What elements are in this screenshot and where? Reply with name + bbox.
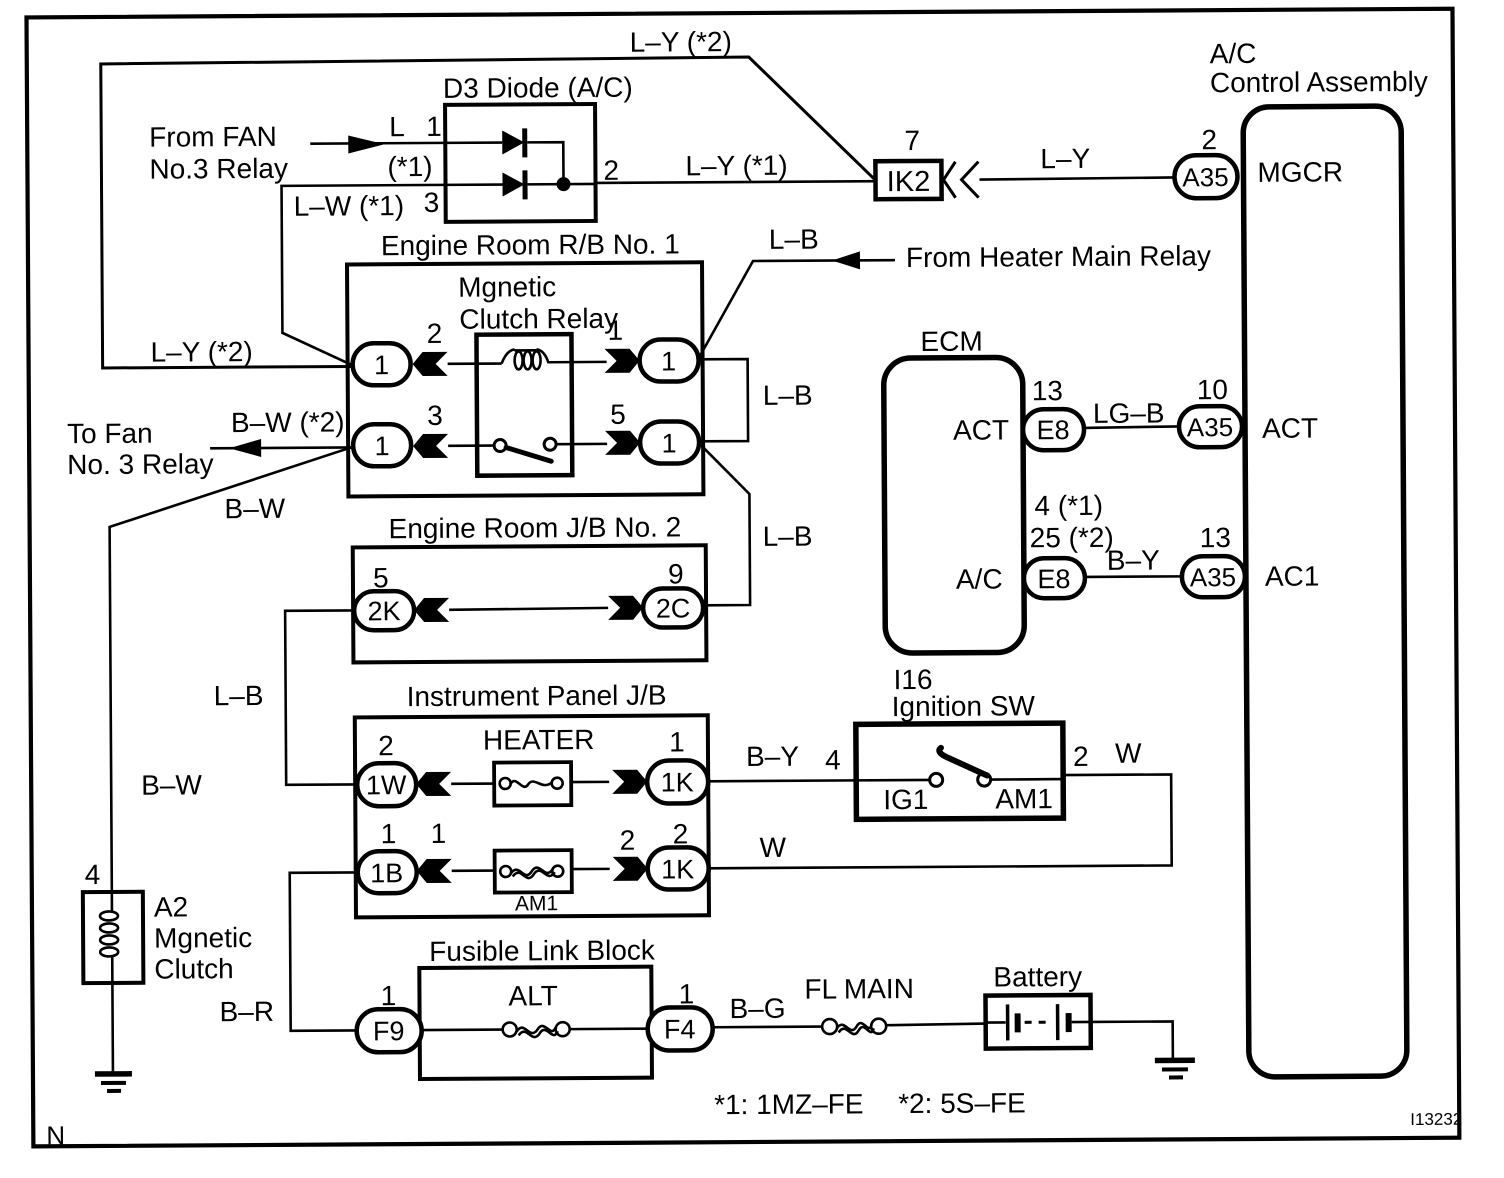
svg-text:4 (*1): 4 (*1) xyxy=(1034,490,1103,521)
wire relay coil left xyxy=(448,362,502,365)
wire L from FAN No.3 relay to diode D3 pin 1 xyxy=(310,142,445,145)
junction node diode output xyxy=(556,177,570,191)
label contact IG1 xyxy=(883,784,928,815)
wire relay switch right xyxy=(556,443,607,446)
wire to Fan No.3 relay xyxy=(210,446,353,449)
svg-text:B–Y: B–Y xyxy=(1107,545,1160,576)
svg-text:L–B: L–B xyxy=(214,680,264,711)
svg-text:13: 13 xyxy=(1032,375,1063,406)
pin 5 label (2K) xyxy=(373,562,389,593)
label I16 Ignition SW xyxy=(891,663,1035,722)
pin 2 label (arrow row2) xyxy=(620,825,636,856)
connector A35 pin 10 xyxy=(1179,406,1242,447)
label wire color B-W (*2) xyxy=(231,406,345,438)
svg-text:D3 Diode (A/C): D3 Diode (A/C) xyxy=(443,72,633,104)
svg-text:Mgnetic: Mgnetic xyxy=(154,922,252,954)
label Mgnetic Clutch Relay xyxy=(458,271,618,335)
wire L-B from 2K to instrument panel 1W xyxy=(285,610,357,784)
svg-text:4: 4 xyxy=(85,859,101,890)
arrow into 1K row1 xyxy=(612,770,647,794)
svg-text:N: N xyxy=(46,1120,65,1150)
ECM box xyxy=(884,357,1025,653)
wire B-G from F4 to FL MAIN xyxy=(713,1025,823,1028)
diode D3 lower xyxy=(445,170,595,200)
svg-text:I13232: I13232 xyxy=(1410,1110,1462,1129)
label I13232 xyxy=(1410,1110,1462,1129)
svg-text:E8: E8 xyxy=(1037,564,1070,594)
svg-text:3: 3 xyxy=(427,400,443,431)
label wire color L-Y (*2) top xyxy=(630,26,732,58)
junction box Engine Room R/B No.1 xyxy=(347,262,703,496)
svg-text:13: 13 xyxy=(1200,522,1231,553)
label net ACT (ECM) xyxy=(953,414,1009,445)
pin 4 label (ignition) xyxy=(825,744,841,775)
svg-text:1: 1 xyxy=(662,428,677,458)
svg-text:ECM: ECM xyxy=(920,326,982,357)
battery box xyxy=(985,995,1090,1049)
svg-text:9: 9 xyxy=(668,558,684,589)
svg-text:Instrument Panel J/B: Instrument Panel J/B xyxy=(407,680,667,713)
fusible link ALT xyxy=(422,1022,648,1038)
relay terminal 3 oval xyxy=(353,424,411,466)
label net A/C (ECM) xyxy=(956,563,1003,594)
svg-text:2: 2 xyxy=(673,818,689,849)
label wire color W (top) xyxy=(1115,738,1142,769)
svg-text:2: 2 xyxy=(378,730,394,761)
svg-text:HEATER: HEATER xyxy=(483,724,595,756)
label wire color L-W (*1) xyxy=(294,190,405,222)
svg-text:L–Y: L–Y xyxy=(1040,143,1090,174)
svg-text:F4: F4 xyxy=(664,1014,696,1044)
wire L-B from relay terminal 5 to J/B No.2 terminal 9 xyxy=(701,445,750,605)
wire B-Y from E8 to A35 pin 13 xyxy=(1085,575,1182,578)
wire relay switch left xyxy=(448,444,494,447)
connector chevrons IK2 xyxy=(943,162,978,198)
svg-text:4: 4 xyxy=(825,744,841,775)
svg-text:1W: 1W xyxy=(366,770,407,800)
pin 3 label xyxy=(427,400,443,431)
svg-text:2: 2 xyxy=(1201,124,1217,155)
wire L-Y (*2) from relay terminal 2 loop to connector IK2 xyxy=(101,56,878,368)
svg-text:E8: E8 xyxy=(1036,415,1069,445)
terminal 1K oval row2 xyxy=(648,847,709,889)
arrow into 2C xyxy=(608,596,643,620)
label wire color B-Y (to switch) xyxy=(746,741,799,772)
wire W from ignition switch AM1 to 1K row2 xyxy=(708,774,1172,868)
wire A2 to ground xyxy=(111,983,114,1072)
relay terminal 5 oval xyxy=(640,421,699,463)
label Instrument Panel J/B xyxy=(407,680,667,713)
label net AC1 (assembly) xyxy=(1265,561,1320,592)
label To Fan No. 3 Relay xyxy=(67,417,214,480)
label FL MAIN xyxy=(804,973,914,1005)
svg-text:B–W: B–W xyxy=(224,493,285,524)
note engine codes xyxy=(714,1087,1026,1120)
svg-text:L–B: L–B xyxy=(763,521,813,552)
svg-text:FL MAIN: FL MAIN xyxy=(804,973,914,1005)
svg-text:Ignition SW: Ignition SW xyxy=(892,690,1036,722)
svg-text:B–W (*2): B–W (*2) xyxy=(231,406,345,438)
wire AM1 fuse to 1K row2 xyxy=(572,868,610,871)
svg-text:No.3 Relay: No.3 Relay xyxy=(149,153,288,185)
svg-text:IG1: IG1 xyxy=(883,784,928,815)
terminal 2K oval xyxy=(354,591,414,630)
svg-text:2: 2 xyxy=(620,825,636,856)
svg-text:A/C: A/C xyxy=(956,563,1003,594)
magnetic clutch A2 box xyxy=(83,892,144,983)
pin 5 label xyxy=(610,399,626,430)
ignition switch contacts xyxy=(856,747,1063,787)
pin 1 label xyxy=(608,315,624,346)
label AM1 (fuse) xyxy=(515,892,558,915)
svg-text:1K: 1K xyxy=(661,767,694,797)
label wire color B-W (vertical) xyxy=(141,769,202,800)
fusible link block box xyxy=(419,967,652,1079)
svg-text:*2: 5S–FE: *2: 5S–FE xyxy=(898,1087,1026,1119)
svg-text:F9: F9 xyxy=(373,1016,405,1046)
pin 10 label (A35) xyxy=(1197,374,1228,405)
label From FAN No.3 Relay xyxy=(149,121,288,185)
pin 13 label (A35) xyxy=(1200,522,1231,553)
fuse HEATER xyxy=(494,762,571,805)
svg-text:A35: A35 xyxy=(1190,562,1236,592)
label wire color L-B (loop) xyxy=(763,380,813,411)
label wire color L-B (left) xyxy=(214,680,264,711)
label From Heater Main Relay xyxy=(906,240,1211,273)
label A2 Mgnetic Clutch xyxy=(154,891,253,985)
arrow to Fan No.3 relay xyxy=(229,439,261,457)
wire 2K to 2C xyxy=(449,608,608,610)
wire B-Y from 1K to ignition switch IG1 xyxy=(708,779,856,783)
terminal F9 oval xyxy=(357,1009,422,1052)
wire L-Y (*1) from diode pin 2 to connector IK2 xyxy=(596,181,877,183)
svg-text:B–R: B–R xyxy=(219,996,274,1027)
arrow into terminal 1 xyxy=(605,349,640,373)
svg-text:1B: 1B xyxy=(370,858,403,888)
pin 2 label (1W) xyxy=(378,730,394,761)
svg-text:From Heater Main Relay: From Heater Main Relay xyxy=(906,240,1211,273)
svg-text:1: 1 xyxy=(381,980,397,1011)
svg-text:ALT: ALT xyxy=(508,980,557,1011)
svg-text:Control Assembly: Control Assembly xyxy=(1210,66,1428,98)
svg-text:1: 1 xyxy=(374,350,389,380)
svg-text:2: 2 xyxy=(603,155,619,186)
wire 1W to HEATER fuse xyxy=(451,782,498,785)
terminal 1W oval xyxy=(357,763,416,806)
label net ACT (assembly) xyxy=(1262,413,1318,444)
label wire color L-B (to J/B) xyxy=(763,521,813,552)
pin 1 label (arrow row2) xyxy=(431,818,447,849)
pin 1 label (1B) xyxy=(381,818,397,849)
wire L-W (*1) from diode pin 3 to relay terminal 2 xyxy=(282,185,447,365)
svg-text:No. 3 Relay: No. 3 Relay xyxy=(67,448,213,480)
label HEATER xyxy=(483,724,595,756)
terminal F4 oval xyxy=(648,1007,713,1050)
wire relay coil right xyxy=(549,361,607,364)
svg-text:A35: A35 xyxy=(1182,162,1228,192)
svg-text:*1: 1MZ–FE: *1: 1MZ–FE xyxy=(714,1088,864,1120)
wire LG-B from E8 to A35 pin 10 xyxy=(1084,426,1179,428)
svg-text:ACT: ACT xyxy=(1262,413,1318,444)
label ECM xyxy=(920,326,982,357)
relay terminal 1 oval xyxy=(639,339,698,381)
terminal 1K oval row1 xyxy=(647,760,708,803)
relay coil xyxy=(502,349,549,369)
svg-text:L–W (*1): L–W (*1) xyxy=(294,190,405,222)
pin 7 label xyxy=(904,125,920,156)
svg-text:1: 1 xyxy=(431,818,447,849)
relay contact switch xyxy=(494,438,556,461)
svg-text:B–Y: B–Y xyxy=(746,741,799,772)
svg-text:A/C: A/C xyxy=(1210,38,1257,69)
svg-text:5: 5 xyxy=(610,399,626,430)
svg-text:1: 1 xyxy=(375,431,390,461)
svg-text:Clutch Relay: Clutch Relay xyxy=(459,303,618,335)
connector E8 (ACT) xyxy=(1023,409,1084,450)
svg-text:W: W xyxy=(1115,738,1142,769)
arrow into terminal 3 xyxy=(413,434,448,458)
diode D3 upper xyxy=(445,128,563,183)
terminal 1B oval xyxy=(358,851,417,893)
wire 1B to AM1 fuse xyxy=(452,869,499,872)
pin 1 label (F4) xyxy=(679,978,695,1009)
label wire color B-R xyxy=(219,996,274,1027)
pin 1 label (F9) xyxy=(381,980,397,1011)
label wire color B-Y (ECM) xyxy=(1107,545,1160,576)
pin 3 label xyxy=(424,187,440,218)
label contact AM1 xyxy=(995,783,1053,814)
svg-text:W: W xyxy=(759,832,786,863)
svg-text:L–Y (*2): L–Y (*2) xyxy=(630,26,732,58)
arrow into terminal 2 xyxy=(413,352,448,376)
svg-text:25 (*2): 25 (*2) xyxy=(1030,522,1114,554)
pin 1 label (1K row1) xyxy=(669,726,685,757)
svg-text:Fusible Link Block: Fusible Link Block xyxy=(429,935,656,967)
label Battery xyxy=(993,961,1082,993)
wire L-Y from IK2 to A/C control assembly pin 2 xyxy=(979,177,1174,179)
wire B-R from 1B to fusible link F9 xyxy=(290,872,359,1030)
svg-text:AC1: AC1 xyxy=(1265,561,1320,592)
terminal 2C oval xyxy=(643,588,703,627)
connector A35 pin 2 xyxy=(1174,155,1237,198)
label wire color L-Y (*2) left xyxy=(150,336,252,368)
svg-text:From FAN: From FAN xyxy=(149,121,277,153)
wire FL MAIN to battery xyxy=(887,1024,986,1026)
svg-text:1: 1 xyxy=(426,111,442,142)
svg-text:Engine Room J/B No. 2: Engine Room J/B No. 2 xyxy=(389,511,682,544)
svg-text:L–B: L–B xyxy=(769,224,819,255)
pin 2 label (A35) xyxy=(1201,124,1217,155)
svg-text:Mgnetic: Mgnetic xyxy=(458,271,556,303)
wire L-B from heater main relay to relay terminal 1 xyxy=(698,260,896,358)
fusible link FL MAIN xyxy=(822,1019,886,1035)
svg-text:IK2: IK2 xyxy=(887,166,931,198)
junction box Engine Room J/B No.2 xyxy=(353,545,707,662)
arrow into 1W xyxy=(416,772,451,796)
svg-text:1: 1 xyxy=(669,726,685,757)
svg-text:L–B: L–B xyxy=(763,380,813,411)
arrow into terminal 5 xyxy=(605,431,640,455)
label A/C Control Assembly xyxy=(1210,37,1428,98)
svg-text:B–G: B–G xyxy=(729,993,785,1024)
ground (battery) xyxy=(1155,1060,1195,1077)
connector IK2 xyxy=(875,161,941,199)
svg-text:AM1: AM1 xyxy=(515,892,558,915)
svg-text:2K: 2K xyxy=(368,596,401,626)
label wire color LG-B xyxy=(1093,397,1165,428)
wire B-W from relay terminal 3 to magnetic clutch xyxy=(109,447,354,891)
arrow on FAN relay wire xyxy=(348,135,384,153)
svg-text:L–Y (*2): L–Y (*2) xyxy=(150,336,252,368)
arrow on heater relay wire xyxy=(832,251,860,269)
svg-text:A35: A35 xyxy=(1187,412,1233,442)
A/C control assembly box xyxy=(1243,106,1407,1077)
svg-text:ACT: ACT xyxy=(953,414,1009,445)
fuse AM1 xyxy=(495,850,572,892)
pin 9 label (2C) xyxy=(668,558,684,589)
connector A35 pin 13 xyxy=(1182,556,1245,597)
connector E8 (A/C) xyxy=(1024,558,1085,598)
arrow into 2K xyxy=(414,598,449,622)
svg-text:L–Y (*1): L–Y (*1) xyxy=(685,150,787,182)
junction box Instrument Panel J/B xyxy=(355,715,709,917)
pin 1 label xyxy=(426,111,442,142)
relay terminal 2 oval xyxy=(352,343,410,385)
label wire color W (row2) xyxy=(759,832,786,863)
label wire color L (*1) xyxy=(387,111,433,182)
svg-text:1: 1 xyxy=(661,346,676,376)
pin 4 label (A2) xyxy=(85,859,101,890)
pin 2 label xyxy=(427,318,443,349)
battery cells xyxy=(986,1004,1091,1041)
pin 13 label (E8 ACT) xyxy=(1032,375,1063,406)
svg-text:LG–B: LG–B xyxy=(1093,397,1165,428)
svg-text:2: 2 xyxy=(1073,741,1089,772)
svg-text:(*1): (*1) xyxy=(387,151,432,182)
svg-text:5: 5 xyxy=(373,562,389,593)
label Engine Room R/B No. 1 xyxy=(381,228,680,261)
svg-text:Battery: Battery xyxy=(993,961,1082,993)
label wire color B-G xyxy=(729,993,785,1024)
svg-text:3: 3 xyxy=(424,187,440,218)
label Engine Room J/B No. 2 xyxy=(389,511,682,544)
svg-text:Engine Room R/B No. 1: Engine Room R/B No. 1 xyxy=(381,228,680,261)
label Fusible Link Block xyxy=(429,935,656,967)
svg-text:MGCR: MGCR xyxy=(1257,156,1343,188)
svg-text:7: 7 xyxy=(904,125,920,156)
svg-text:1: 1 xyxy=(679,978,695,1009)
pin 25 (*2) label (E8 A/C) xyxy=(1030,522,1114,554)
pin 2 label xyxy=(603,155,619,186)
label net MGCR xyxy=(1257,156,1343,188)
magnetic clutch relay box xyxy=(476,334,572,476)
svg-text:Clutch: Clutch xyxy=(154,953,234,984)
label wire color L-Y xyxy=(1040,143,1090,174)
svg-text:AM1: AM1 xyxy=(995,783,1053,814)
svg-text:2: 2 xyxy=(427,318,443,349)
pin 4 (*1) label (E8 A/C) xyxy=(1034,490,1103,521)
svg-text:1: 1 xyxy=(381,818,397,849)
wire HEATER fuse to 1K xyxy=(571,781,609,784)
pin 2 label (ignition) xyxy=(1073,741,1089,772)
label wire color L-B (heater) xyxy=(769,224,819,255)
label wire color L-Y (*1) xyxy=(685,150,787,182)
svg-text:10: 10 xyxy=(1197,374,1228,405)
pin 2 label (1K row2) xyxy=(673,818,689,849)
magnetic clutch coil xyxy=(100,892,119,983)
wire L-B loop terminal 1 to terminal 5 xyxy=(699,359,749,441)
label ALT xyxy=(508,980,557,1011)
ignition switch box xyxy=(856,723,1064,819)
svg-text:B–W: B–W xyxy=(141,769,202,800)
label wire color B-W (diagonal) xyxy=(224,493,285,524)
label D3 Diode (A/C) xyxy=(443,72,633,104)
svg-text:2C: 2C xyxy=(656,593,691,623)
arrow into 1K row2 xyxy=(613,857,648,881)
diode block D3 box xyxy=(445,104,596,222)
svg-text:1: 1 xyxy=(608,315,624,346)
arrow into 1B xyxy=(417,859,452,883)
svg-text:A2: A2 xyxy=(154,891,188,922)
wire battery to ground xyxy=(1091,1021,1173,1059)
label N xyxy=(46,1120,65,1150)
ground (magnetic clutch) xyxy=(95,1074,132,1091)
svg-text:1K: 1K xyxy=(661,854,694,884)
svg-text:L: L xyxy=(389,111,405,142)
svg-text:To Fan: To Fan xyxy=(67,418,153,450)
